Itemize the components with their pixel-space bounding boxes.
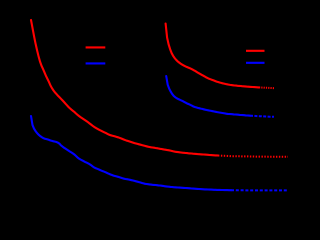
inset plot blue curve (solid part) (166, 76, 250, 116)
inset plot blue curve (dashed tail) (250, 116, 274, 117)
inset legend red line sample (246, 50, 265, 52)
main plot red curve (dotted tail) (218, 156, 288, 157)
main plot blue curve (solid part) (31, 116, 231, 190)
main plot blue curve (dashed tail) (231, 189, 289, 191)
main legend red line sample (86, 46, 106, 48)
main plot red curve (solid part) (31, 20, 218, 156)
main legend blue line sample (86, 62, 106, 64)
inset legend blue line sample (246, 62, 265, 64)
inset plot red curve (solid part) (166, 24, 259, 88)
inset plot red curve (dotted tail) (259, 86, 274, 89)
